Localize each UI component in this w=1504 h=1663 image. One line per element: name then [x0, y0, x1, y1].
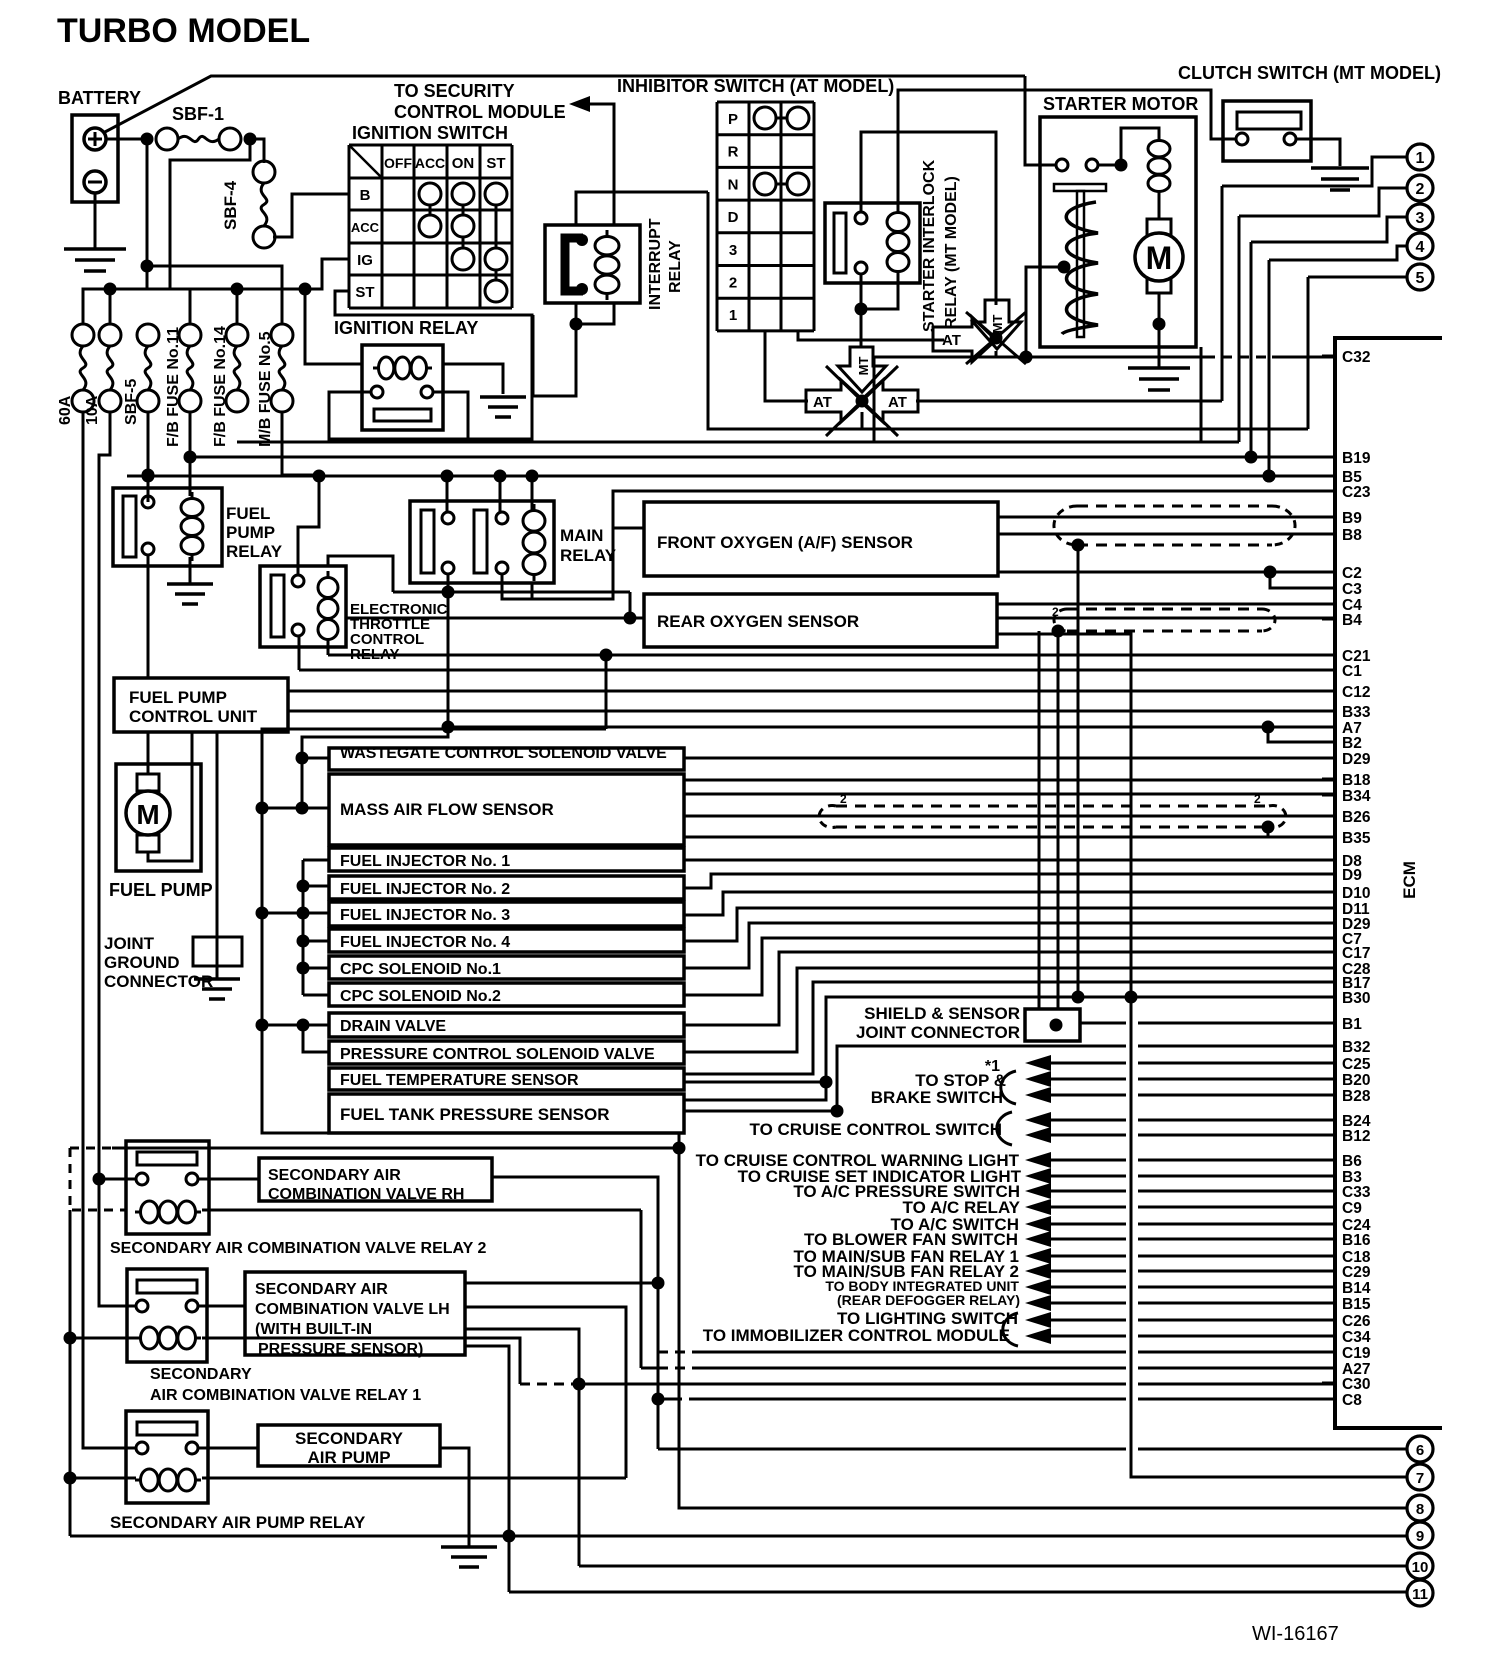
wire wastegate feed elbow [302, 727, 448, 758]
ECM pin A7 [1322, 726, 1335, 729]
svg-text:3: 3 [729, 242, 737, 259]
svg-text:MAIN: MAIN [560, 526, 603, 545]
arrow row y1120 [1025, 1112, 1051, 1128]
wire D8 net [684, 859, 1335, 862]
svg-text:ECM: ECM [1400, 861, 1419, 899]
inhibitor contacts P row [754, 107, 776, 129]
wire starter feed [1025, 76, 1056, 165]
ECM pin C3 [1322, 587, 1335, 590]
wire inhibitor col2 bottom [765, 331, 808, 401]
ECM pin C4 [1322, 603, 1335, 606]
wire A7 net [448, 726, 1335, 729]
svg-text:M: M [1146, 240, 1173, 276]
arrow row y1079 [1025, 1071, 1051, 1087]
svg-text:AIR PUMP: AIR PUMP [307, 1448, 390, 1467]
ECM pin B17 [1322, 981, 1335, 984]
wire main relay contact riser [447, 592, 450, 727]
ECM pin B5 [1322, 475, 1335, 478]
svg-text:D29: D29 [1342, 751, 1371, 768]
ECM pin C32 [1322, 355, 1335, 358]
wire 10A feeder down [99, 412, 136, 1306]
fuse F/B FUSE No.14 [226, 324, 248, 346]
connector circle 4 [1407, 233, 1433, 259]
front oxygen sensor [644, 502, 998, 576]
wire C17 net [684, 952, 1335, 1025]
wire to circle 3 [1251, 217, 1407, 242]
ECM pin B33 [1322, 710, 1335, 713]
wire relay right contact to bus [433, 392, 468, 442]
svg-text:C1: C1 [1342, 663, 1362, 680]
arrow row y1336 [1025, 1328, 1051, 1344]
svg-text:PRESSURE SENSOR): PRESSURE SENSOR) [258, 1341, 423, 1358]
wire rear oxygen heater feed [346, 617, 644, 620]
svg-text:N: N [728, 176, 739, 193]
shield oval B26 [836, 805, 1269, 808]
svg-text:SECONDARY AIR PUMP RELAY: SECONDARY AIR PUMP RELAY [110, 1513, 366, 1532]
svg-text:B20: B20 [1342, 1072, 1370, 1089]
ECM pin C25 [1322, 1062, 1335, 1065]
svg-text:2: 2 [1052, 605, 1059, 619]
main relay [410, 501, 554, 583]
wire D9 net [684, 874, 1335, 888]
connector circle 11 [1407, 1580, 1433, 1606]
svg-text:M: M [136, 799, 159, 830]
svg-text:SBF-1: SBF-1 [172, 104, 224, 124]
ECM pin C24 [1322, 1223, 1335, 1226]
ECM pin C9 [1322, 1206, 1335, 1209]
svg-text:B32: B32 [1342, 1039, 1370, 1056]
wire B4 net [997, 617, 1335, 620]
svg-text:WASTEGATE CONTROL SOLENOID VAL: WASTEGATE CONTROL SOLENOID VALVE [340, 745, 667, 762]
svg-text:CONTROL UNIT: CONTROL UNIT [129, 707, 258, 726]
ECM pin B28 [1322, 1094, 1335, 1097]
svg-text:F/B FUSE No.11: F/B FUSE No.11 [165, 327, 182, 447]
mass air flow sensor [329, 774, 684, 845]
svg-text:CONNECTOR: CONNECTOR [104, 972, 213, 991]
ECM pin B4 [1322, 618, 1335, 621]
svg-text:B9: B9 [1342, 510, 1362, 527]
fuel injector No.3 [329, 902, 684, 926]
ECM pin C12 [1322, 690, 1335, 693]
svg-text:CPC SOLENOID No.1: CPC SOLENOID No.1 [340, 961, 501, 978]
ECM pin B26 [1322, 815, 1335, 818]
svg-text:STARTER MOTOR: STARTER MOTOR [1043, 94, 1198, 114]
arrow row y1224 [1025, 1216, 1051, 1232]
svg-text:D10: D10 [1342, 885, 1370, 902]
svg-text:10A: 10A [84, 395, 101, 425]
wire B19 net [190, 456, 1335, 459]
ECM pin C29 [1322, 1270, 1335, 1273]
ECM pin B18 [1322, 778, 1335, 781]
wire battery diagonal to top bus [103, 76, 1025, 133]
svg-text:B14: B14 [1342, 1280, 1371, 1297]
svg-text:B33: B33 [1342, 704, 1371, 721]
arrow row y1063 [1025, 1055, 1051, 1071]
rear oxygen sensor [644, 594, 997, 647]
svg-text:FUEL PUMP: FUEL PUMP [109, 880, 213, 900]
wire shield drains [1038, 631, 1041, 1009]
ECM pin A27 [1322, 1367, 1335, 1370]
svg-text:TURBO MODEL: TURBO MODEL [57, 12, 310, 50]
svg-text:COMBINATION VALVE RH: COMBINATION VALVE RH [268, 1186, 464, 1203]
wire C3 net [1270, 572, 1335, 588]
arrow to security [569, 96, 590, 112]
connector circle 10 [1407, 1553, 1433, 1579]
svg-text:P: P [728, 111, 738, 128]
wire maf input [262, 807, 329, 810]
wire M/B No.5 to B5 line [282, 412, 319, 475]
svg-text:C34: C34 [1342, 1329, 1371, 1346]
ECM pin B19 [1322, 456, 1335, 459]
arrow row y1095 [1025, 1087, 1051, 1103]
MT arrow lower [838, 347, 886, 392]
wire battery feeder down [146, 139, 149, 290]
svg-text:RELAY: RELAY [350, 646, 399, 663]
fuel injector No.1 [329, 848, 684, 871]
svg-text:PUMP: PUMP [226, 523, 275, 542]
wire No11 stub [189, 289, 192, 324]
arrow row y1287 [1025, 1279, 1051, 1295]
ECM pin B3 [1322, 1175, 1335, 1178]
starter coil [1121, 128, 1159, 165]
wire AT lower right output [916, 400, 1222, 403]
svg-text:FUEL INJECTOR No. 4: FUEL INJECTOR No. 4 [340, 934, 510, 951]
wire N row to cross bottom [708, 192, 1308, 429]
wire B9 net [998, 516, 1335, 519]
svg-text:60A: 60A [57, 395, 74, 425]
cross upper [966, 312, 1026, 364]
ECM pin B20 [1322, 1078, 1335, 1081]
wire coil ground bus [69, 1148, 72, 1210]
svg-text:B16: B16 [1342, 1232, 1371, 1249]
wire relay2 coil line to A27 [202, 1209, 641, 1212]
wire C30 net [520, 1383, 580, 1386]
fuel pump [116, 764, 201, 871]
svg-text:SECONDARY AIR COMBINATION VALV: SECONDARY AIR COMBINATION VALVE RELAY 2 [110, 1240, 486, 1257]
wire to circle 4 [1269, 246, 1407, 260]
svg-text:IGNITION RELAY: IGNITION RELAY [334, 318, 478, 338]
interrupt relay [545, 225, 640, 303]
wire B32 net [684, 1046, 1126, 1111]
connector circle 8 [1407, 1495, 1433, 1521]
svg-text:3: 3 [1416, 210, 1425, 227]
wire fuse bus [83, 259, 349, 324]
arrow row y1271 [1025, 1263, 1051, 1279]
wire LH out2 to pump coil riser [465, 1307, 626, 1478]
svg-text:C3: C3 [1342, 581, 1362, 598]
svg-text:JOINT CONNECTOR: JOINT CONNECTOR [856, 1023, 1020, 1042]
cross lower [826, 366, 898, 436]
svg-text:FUEL TANK PRESSURE SENSOR: FUEL TANK PRESSURE SENSOR [340, 1105, 610, 1124]
wire ST row loop to relay contact [329, 291, 532, 439]
arrow row y1207 [1025, 1199, 1051, 1215]
svg-text:MT: MT [856, 357, 871, 376]
wire No11 to B19 [189, 412, 192, 496]
ECM pin D9 [1322, 873, 1335, 876]
svg-text:SECONDARY: SECONDARY [150, 1366, 252, 1383]
svg-text:PRESSURE CONTROL SOLENOID VALV: PRESSURE CONTROL SOLENOID VALVE [340, 1046, 655, 1063]
svg-text:2: 2 [1416, 181, 1425, 198]
fuel tank pressure sensor [329, 1094, 684, 1133]
starter plunger [1054, 184, 1106, 191]
svg-text:C32: C32 [1342, 349, 1370, 366]
ground fp relay [189, 557, 192, 584]
fuse 60A [72, 324, 94, 346]
wire fpcu to pump [147, 732, 150, 774]
ECM pin B12 [1322, 1134, 1335, 1137]
AT arrow upper [933, 317, 996, 362]
ECM pin D29 [1322, 922, 1335, 925]
ECM pin B35 [1322, 836, 1335, 839]
shield oval B9 B8 [1077, 505, 1272, 508]
ground battery [94, 193, 97, 249]
svg-text:REAR OXYGEN SENSOR: REAR OXYGEN SENSOR [657, 612, 859, 631]
wire C28 net [684, 968, 1335, 1052]
AT arrow lower left [806, 380, 864, 422]
svg-text:9: 9 [1416, 1528, 1424, 1545]
wire inhibitor col3 bottom [798, 331, 944, 340]
wire riser to rear heater line [629, 592, 632, 618]
wire B35 net [684, 836, 1335, 839]
connector circle 6 [1407, 1436, 1433, 1462]
arrow row y1256 [1025, 1248, 1051, 1264]
svg-text:AT: AT [942, 332, 961, 349]
svg-text:ON: ON [452, 155, 475, 172]
wire D29 net wastegate [684, 757, 1335, 760]
arrow row y1239 [1025, 1231, 1051, 1247]
wire LH out3 to C30 and circle 10 [465, 1329, 579, 1566]
svg-text:RELAY: RELAY [226, 542, 283, 561]
wire D10 net [684, 892, 1335, 915]
ECM pin B24 [1322, 1119, 1335, 1122]
wire to circle 2 [1239, 188, 1407, 216]
svg-text:FUEL INJECTOR No. 3: FUEL INJECTOR No. 3 [340, 907, 510, 924]
wire B5 net [127, 475, 1335, 478]
secondary air combination valve LH [245, 1272, 465, 1355]
svg-text:C29: C29 [1342, 1264, 1371, 1281]
secondary air combination valve RH [259, 1158, 492, 1201]
wire interrupt bottom loop to ST circuit [533, 315, 576, 396]
ECM pin C28 [1322, 967, 1335, 970]
svg-text:ST: ST [355, 284, 374, 301]
ECM pin D8 [1322, 859, 1335, 862]
svg-text:C23: C23 [1342, 484, 1371, 501]
svg-text:C33: C33 [1342, 1184, 1371, 1201]
svg-text:FUEL INJECTOR No. 1: FUEL INJECTOR No. 1 [340, 853, 510, 870]
svg-text:B18: B18 [1342, 772, 1371, 789]
fuse 10A [99, 324, 121, 346]
wire to circle 5 [1308, 276, 1407, 279]
fuel pump control unit [114, 678, 288, 732]
svg-text:ACC: ACC [351, 220, 380, 235]
wire LH out4 to circle 11 [465, 1346, 509, 1592]
wire battery plus [106, 138, 147, 141]
svg-text:4: 4 [1416, 239, 1425, 256]
svg-text:IG: IG [357, 252, 373, 269]
svg-text:GROUND: GROUND [104, 953, 180, 972]
wire C2 net [998, 571, 1335, 574]
svg-text:B15: B15 [1342, 1296, 1371, 1313]
wire to circle 8 [679, 1133, 1407, 1508]
wire B26 net [684, 815, 1335, 818]
svg-text:RELAY (MT MODEL): RELAY (MT MODEL) [943, 176, 960, 329]
wire etc coil top [328, 556, 393, 592]
wire B33 net [288, 710, 1335, 713]
connector circle 9 [1407, 1522, 1433, 1548]
svg-text:2: 2 [840, 792, 847, 806]
arrow row y1135 [1025, 1127, 1051, 1143]
svg-text:(REAR DEFOGGER RELAY): (REAR DEFOGGER RELAY) [837, 1292, 1020, 1308]
wire 10A stub [109, 289, 112, 324]
ECM pin C34 [1322, 1335, 1335, 1338]
svg-text:B26: B26 [1342, 809, 1371, 826]
svg-text:DRAIN VALVE: DRAIN VALVE [340, 1018, 446, 1035]
drain valve [329, 1013, 684, 1037]
wire A27 net [641, 1367, 658, 1370]
wire cross to C32 line [995, 351, 998, 357]
wire pump loop [148, 732, 192, 861]
svg-text:MASS AIR FLOW SENSOR: MASS AIR FLOW SENSOR [340, 800, 554, 819]
ECM pin C23 [1322, 490, 1335, 493]
wire B8 net [998, 533, 1335, 536]
ECM pin B16 [1322, 1238, 1335, 1241]
ECM pin C8 [1322, 1398, 1335, 1401]
wire interlock top contact [861, 132, 996, 305]
wire y592 sensor feed [393, 591, 630, 594]
ECM pin D11 [1322, 907, 1335, 910]
MT arrow upper [973, 300, 1021, 349]
svg-text:C25: C25 [1342, 1056, 1371, 1073]
svg-text:FUEL PUMP: FUEL PUMP [129, 688, 227, 707]
ECM pin B8 [1322, 533, 1335, 536]
svg-text:RELAY: RELAY [667, 240, 684, 293]
fuse SBF-5 [137, 324, 159, 346]
wire plunger tap [1026, 267, 1064, 357]
svg-text:FRONT OXYGEN (A/F) SENSOR: FRONT OXYGEN (A/F) SENSOR [657, 533, 913, 552]
svg-text:B8: B8 [1342, 527, 1362, 544]
secondary air pump relay [126, 1411, 208, 1503]
svg-text:D: D [728, 209, 739, 226]
secondary air pump [258, 1425, 440, 1466]
svg-text:WI-16167: WI-16167 [1252, 1623, 1339, 1645]
pressure control solenoid valve [329, 1041, 684, 1064]
svg-text:1: 1 [1416, 150, 1425, 167]
svg-text:5: 5 [1416, 270, 1425, 287]
svg-text:BATTERY: BATTERY [58, 88, 141, 108]
svg-text:ACC: ACC [415, 155, 445, 171]
fuel temperature sensor [329, 1068, 684, 1090]
fuel pump relay [113, 488, 222, 566]
ECM pin B14 [1322, 1286, 1335, 1289]
svg-text:RELAY: RELAY [560, 546, 617, 565]
arrow row y1303 [1025, 1295, 1051, 1311]
secondary air combination valve relay 2 [126, 1141, 209, 1234]
starter interlock relay [825, 203, 920, 283]
wire C8 net [652, 1393, 665, 1406]
wire C21 net [328, 654, 1335, 657]
svg-text:C19: C19 [1342, 1345, 1371, 1362]
svg-text:C26: C26 [1342, 1313, 1371, 1330]
arrow row y1191 [1025, 1183, 1051, 1199]
CPC solenoid No.2 [329, 983, 684, 1006]
ECM pin B2 [1322, 741, 1335, 744]
ECM pin B34 [1322, 794, 1335, 797]
wire valve LH out1 [465, 1282, 658, 1285]
svg-text:B4: B4 [1342, 612, 1362, 629]
svg-text:(WITH BUILT-IN: (WITH BUILT-IN [255, 1321, 372, 1338]
svg-text:CPC SOLENOID No.2: CPC SOLENOID No.2 [340, 988, 501, 1005]
wire No14 stub [236, 289, 239, 324]
svg-text:SBF-5: SBF-5 [123, 379, 140, 425]
ECM pin C26 [1322, 1319, 1335, 1322]
wire C32 net [874, 356, 1205, 359]
svg-text:1: 1 [729, 307, 737, 324]
wire SBF-4 to ignition switch B row [273, 194, 349, 237]
ECM connector [1335, 338, 1442, 1428]
wire drain valve input [262, 1024, 329, 1027]
svg-text:11: 11 [1412, 1586, 1428, 1603]
svg-text:6: 6 [1416, 1442, 1424, 1459]
svg-text:B1: B1 [1342, 1016, 1362, 1033]
ECM pin C33 [1322, 1190, 1335, 1193]
svg-text:INTERRUPT: INTERRUPT [647, 218, 664, 310]
fuse F/B FUSE No.11 [179, 324, 201, 346]
wire main relay bottom to C23 elbow [502, 528, 613, 599]
wire clutch right to ground [1296, 139, 1340, 166]
wire C4 net [997, 603, 1335, 606]
wire pressure control input [303, 1025, 329, 1052]
wire to circle 9 [70, 1535, 1407, 1538]
svg-text:C2: C2 [1342, 565, 1362, 582]
wire interlock bottom [860, 274, 863, 309]
wire dashed top bus [70, 1147, 112, 1150]
wire B30 net [684, 997, 1335, 1100]
connector circle 5 [1407, 264, 1433, 290]
svg-text:C9: C9 [1342, 1200, 1362, 1217]
connector circle 1 [1407, 144, 1433, 170]
svg-text:B30: B30 [1342, 990, 1370, 1007]
svg-text:STARTER INTERLOCK: STARTER INTERLOCK [921, 159, 938, 332]
wire C12 net [288, 690, 1335, 693]
ECM pin B32 [1322, 1045, 1335, 1048]
svg-text:TO SECURITY: TO SECURITY [394, 81, 515, 101]
wire to circle 1 [1222, 157, 1407, 186]
wire fp relay coil [189, 457, 192, 496]
wire B18 net [684, 779, 1335, 782]
svg-text:FUEL INJECTOR No. 2: FUEL INJECTOR No. 2 [340, 881, 510, 898]
wire wastegate input [296, 752, 309, 765]
electronic throttle control relay [260, 566, 346, 647]
wire RH output down [492, 1177, 658, 1449]
ECM pin C1 [1322, 669, 1335, 672]
ECM pin D10 [1322, 891, 1335, 894]
ECM pin B6 [1322, 1159, 1335, 1162]
svg-text:B: B [360, 187, 371, 204]
fuse M/B FUSE No.5 [271, 324, 293, 346]
svg-text:B35: B35 [1342, 830, 1371, 847]
wire to circle 6 [658, 1448, 1126, 1451]
wire pump output to ground [440, 1448, 469, 1547]
injector input bus [303, 859, 329, 862]
svg-text:SECONDARY AIR: SECONDARY AIR [268, 1167, 401, 1184]
wire fp relay bottom contact [147, 555, 150, 678]
svg-text:TO CRUISE CONTROL SWITCH: TO CRUISE CONTROL SWITCH [750, 1120, 1003, 1139]
ECM pin C2 [1322, 571, 1335, 574]
ECM pin C30 [1322, 1382, 1335, 1385]
wire interlock coil top [898, 90, 1236, 212]
ECM pin B9 [1322, 516, 1335, 519]
ECM pin B1 [1322, 1022, 1335, 1025]
